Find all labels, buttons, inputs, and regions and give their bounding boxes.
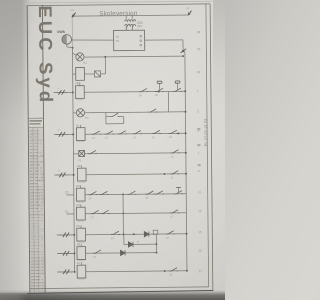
wire: lamp H1 to right bus [84,55,183,58]
terminal marks at 59,174.5 [54,173,68,178]
wire: PSU right output to right bus [145,39,183,41]
photo background shading [0,0,225,300]
contact switch at 110.5,234.5 [111,231,120,235]
contactor coil K0 [76,67,85,80]
svg-text:7: 7 [198,152,200,156]
wire [73,73,76,75]
emergency stop button at 156,92 [155,81,164,92]
wire [84,90,185,93]
power supply U1 internal pin marks [116,35,142,46]
lamp H2 [76,109,84,117]
wire [167,91,169,111]
wire: L1 top supply rail [73,15,189,16]
wire [86,173,186,176]
svg-text:F1: F1 [75,82,79,86]
wire [85,193,186,196]
border frame bottom inner line [30,287,209,289]
top-left dark corner wedge (outside paper) [0,0,30,190]
title strip left line [27,6,30,293]
svg-text:13: 13 [88,196,91,200]
junction node [155,252,157,254]
wire: meter down to left bus [66,44,68,47]
svg-text:A1 A2: A1 A2 [78,278,85,281]
svg-text:13: 13 [170,215,173,219]
svg-text:A1 A2: A1 A2 [78,181,85,184]
svg-text:95: 95 [139,93,142,97]
contactor coil K7 [77,262,86,278]
junction node [186,233,188,235]
svg-text:A1 A2: A1 A2 [78,220,85,223]
contactor coil K5 [77,225,86,241]
title strip table background tint [29,128,45,292]
border frame right inner line [206,4,209,287]
terminal marks at 62,253 [58,251,72,256]
lamp H1 circle [76,53,84,61]
svg-text:3: 3 [58,169,60,173]
diode at 127.5,244.6 [128,242,133,247]
diode at 119.5,253 [120,250,125,255]
wire [57,252,74,254]
svg-text:B: B [137,240,139,244]
svg-text:2: 2 [58,128,60,132]
contact switch at 149,112.5 [148,109,157,113]
svg-text:K2: K2 [77,164,81,168]
wire [100,73,105,75]
junction node [122,212,124,214]
wire [57,234,74,236]
contactor coil K2 [77,165,86,181]
contact switch at 99.5,194.5 [99,191,108,195]
title strip right line [42,5,45,292]
contact switch at 133.5,134 [133,131,142,135]
wire: faint drop from rail to bus [71,17,73,48]
contactor coil F1 [76,83,85,99]
junction node [158,91,160,93]
contact switch at 88.5,194.5 [88,191,97,195]
contact switch at 165.5,234.5 [166,231,175,235]
svg-text:34: 34 [197,70,201,74]
wire [123,234,125,244]
contactor coil K1 [76,125,85,141]
svg-text:21: 21 [152,135,155,139]
terminal marks at 59,92 [53,90,67,95]
svg-text:13: 13 [198,209,202,213]
svg-text:13: 13 [133,135,136,139]
junction node [164,270,166,272]
svg-text:11: 11 [198,190,201,194]
svg-text:13: 13 [91,215,94,219]
junction node [72,133,74,135]
wire [84,73,94,75]
contact switch at 140,92 [139,88,148,92]
svg-text:3: 3 [197,110,199,114]
border frame top inner line [27,4,210,6]
svg-text:1: 1 [197,89,199,93]
svg-text:13: 13 [166,236,169,240]
svg-text:13: 13 [92,136,95,140]
wire: right vertical bus [185,51,187,270]
junction node [73,234,75,236]
wire [85,212,186,215]
contact switch at 105.5,134 [105,131,114,135]
wire [67,213,74,215]
contact switch at 92.5,253 [93,250,102,254]
contact switch at 90.5,213.5 [91,210,100,214]
contact switch at 118.5,134 [118,131,127,135]
svg-text:96: 96 [155,93,158,97]
contact switch at 100.5,213.5 [101,210,110,214]
diode at 143.5,234.5 [144,232,149,237]
contact switch at 170.5,174.5 [170,171,179,175]
junction node [184,90,186,92]
node: right supply arrow [188,11,192,16]
svg-text:13: 13 [170,176,173,180]
paper top edge fold line [25,1,212,3]
junction node [122,193,124,195]
svg-text:K6: K6 [77,243,81,247]
svg-text:13: 13 [171,155,174,159]
contact switch at 152.5,134 [152,130,161,134]
svg-text:A1 A2: A1 A2 [77,98,84,101]
terminal marks at 62,271.5 [58,269,72,274]
svg-text:13: 13 [111,236,114,240]
terminal marks at 59,134 [54,132,68,137]
contact switch at 168.5,271.5 [169,268,178,272]
junction node [73,174,75,176]
junction node [185,152,187,154]
junction node [73,252,75,254]
wire [56,133,73,135]
contact switch at 170,213.5 [170,210,179,214]
junction node [155,243,157,245]
contact switch at 169.5,134 [169,130,178,134]
timer box label on rung 6 [153,230,158,234]
svg-text:9: 9 [198,169,200,173]
junction node [133,233,135,235]
wire [85,132,186,135]
wire [85,233,186,236]
junction node [186,270,188,272]
title strip inner column line [33,127,35,292]
svg-text:C1: C1 [65,209,69,213]
contactor coil K6 [77,244,86,260]
transformer T1 primary pins from rail [125,16,127,19]
contact switch at 92.5,134 [92,131,101,135]
contact switch at 88.5,153.5 [88,150,97,154]
svg-text:K7: K7 [77,261,81,265]
svg-text:H2: H2 [85,116,89,120]
wire [57,271,74,273]
svg-text:23: 23 [145,196,148,200]
wire [84,152,185,155]
svg-text:K1: K1 [76,124,80,128]
wire [55,91,72,93]
rectifier block small box [94,71,100,77]
node: output junction arrow [181,49,187,53]
node: junction dot at top of left bus [72,47,74,49]
wire: left vertical control bus [72,48,74,273]
svg-text:A1 A2: A1 A2 [78,140,85,143]
contact switch at 171,153.5 [171,150,180,154]
contactor coil K3 [76,185,85,201]
junction node [184,111,186,113]
wire [104,57,106,74]
contact switch at 111,116.5 [110,113,119,117]
title strip: small header box [28,126,43,128]
wire: meter to PSU box [72,40,114,41]
svg-text:P1: P1 [78,158,82,162]
wire [56,174,73,176]
junction node [185,132,187,134]
wire [85,111,186,114]
junction node [163,173,165,175]
bell / buzzer P1 [79,150,85,156]
wire [123,117,125,124]
svg-text:15: 15 [198,230,202,234]
svg-text:K3: K3 [76,184,80,188]
label: margin tick [197,128,200,130]
border frame bottom outer (paper edge) line [27,291,213,294]
contact switch at 155,194.5 [155,191,164,195]
svg-text:K5: K5 [77,224,81,228]
wire [155,234,157,252]
transformer T1 coils [125,20,136,31]
label: margin tick [198,164,201,166]
title strip: logo box bottom line [28,117,43,119]
wire [86,252,157,255]
wire [106,123,124,125]
contact switch at 127.5,194.5 [127,191,136,195]
power supply unit U1 box [114,30,145,50]
emergency stop button at 174,92 [173,81,182,92]
wire [124,243,156,245]
svg-text:13: 13 [93,255,96,259]
node: dot at right bus on lamp wire [182,55,184,57]
junction node [185,173,187,175]
junction node [72,91,74,93]
junction node [122,233,124,235]
pushbutton switch at 174,194.5 [174,187,183,194]
border frame right outer line [210,4,213,290]
svg-text:C3: C3 [65,190,69,194]
wire [73,153,78,155]
junction node [74,271,76,273]
wire: bus to lamp H1 [72,53,76,56]
svg-text:15: 15 [198,249,202,253]
kWh meter M1 circle [62,35,72,45]
junction node [104,56,106,58]
node: left supply arrow [72,13,76,18]
title strip inner column line 2 [37,127,39,292]
wire [105,113,107,124]
junction node [177,132,179,134]
svg-text:1: 1 [57,86,59,90]
wire [73,112,76,114]
svg-text:23: 23 [105,136,108,140]
svg-text:13: 13 [169,273,172,277]
contactor coil K4 [77,204,86,220]
wire [106,116,111,118]
wire [122,194,124,234]
contact switch at 145.5,194.5 [145,191,154,195]
svg-text:17: 17 [199,269,203,273]
label: margin tick [197,144,200,146]
wire [86,270,187,273]
terminal marks at 62,234.5 [58,232,72,237]
title strip table row texts [28,130,45,290]
wire [66,194,73,196]
svg-text:K4: K4 [76,203,80,207]
svg-text:13: 13 [169,135,172,139]
wire [119,115,123,117]
